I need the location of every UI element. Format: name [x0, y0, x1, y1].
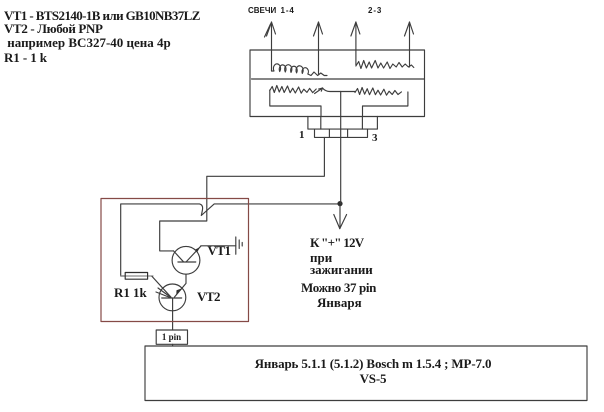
ground symbol (rotated): [236, 237, 242, 254]
connector pin blade 3: [361, 117, 363, 130]
transistor VT1 circle: [172, 246, 200, 274]
label VT1: [208, 244, 231, 258]
arrow to +12V: [334, 206, 347, 229]
resistor R1 lead: [121, 275, 153, 277]
node K +12V text: [310, 236, 363, 250]
text Можно 37 pin: [301, 281, 376, 295]
parts list text line например: [4, 36, 171, 50]
secondary winding 2-3 (jagged scribble): [356, 61, 414, 69]
text зажигании: [310, 263, 373, 277]
label СВЕЧИ 1-4: [248, 6, 276, 15]
VT1 base lead inside: [174, 251, 184, 262]
label VT2: [197, 290, 220, 304]
wire: center pin down to node: [340, 92, 342, 204]
arrow to plug 4: [405, 22, 414, 67]
label 1-4: [281, 6, 295, 15]
VT2 base bar: [162, 297, 182, 299]
VT2 collector wire to 1 pin: [172, 298, 174, 330]
text при: [310, 251, 332, 265]
parts list text line R1: [4, 51, 47, 65]
label 2-3: [368, 6, 382, 15]
primary winding 1-4 (jagged scribble): [270, 86, 316, 94]
1 pin box: [156, 330, 187, 344]
VT1 emitter with arrow: [186, 246, 236, 262]
primary 2-3 right end and shelf: [363, 92, 408, 117]
VT1 collector to VT2 emitter (arrow into base): [175, 274, 187, 297]
parts list text line VT1: [4, 9, 200, 23]
coil core divider line: [252, 78, 425, 80]
secondary winding 1-4 (loopy scribble): [272, 64, 328, 76]
label R1 1k: [114, 286, 147, 300]
wire: R1 to VT2 base: [152, 276, 171, 297]
wire: coil pin1 to VT1 drain: [160, 137, 325, 251]
connector pin blade 1: [320, 117, 322, 130]
primary 1-4 left end and shelf: [270, 90, 321, 117]
text Января: [317, 296, 362, 310]
connector lower strip with 3 cells: [315, 129, 368, 137]
connector pin label 3: [372, 131, 378, 145]
arrow to plug 3: [351, 22, 360, 65]
transistor VT2 circle: [159, 284, 186, 311]
primary winding 2-3 (jagged scribble): [355, 88, 401, 96]
label 1 pin: [156, 332, 187, 342]
ignition coil module box: [250, 50, 425, 117]
resistor R1: [125, 273, 147, 280]
connector pin label 1: [299, 128, 305, 142]
parts list text line VT2: [4, 22, 103, 36]
VT1 base bar: [178, 261, 196, 263]
wire 1pin to ECU: [172, 344, 174, 346]
connector shell upper tab: [308, 117, 378, 130]
driver red box: [101, 199, 249, 322]
arrow to plug 1: [265, 22, 276, 71]
wire: +12V rail with hop: [121, 204, 340, 276]
arrow to plug 2: [314, 22, 323, 74]
primary 1-4 to center tap (arrowed link): [315, 88, 355, 94]
ECU box text Январь 5.1.1: [145, 356, 587, 386]
ECU Январь box: [145, 346, 587, 401]
junction node dot: [337, 201, 342, 206]
